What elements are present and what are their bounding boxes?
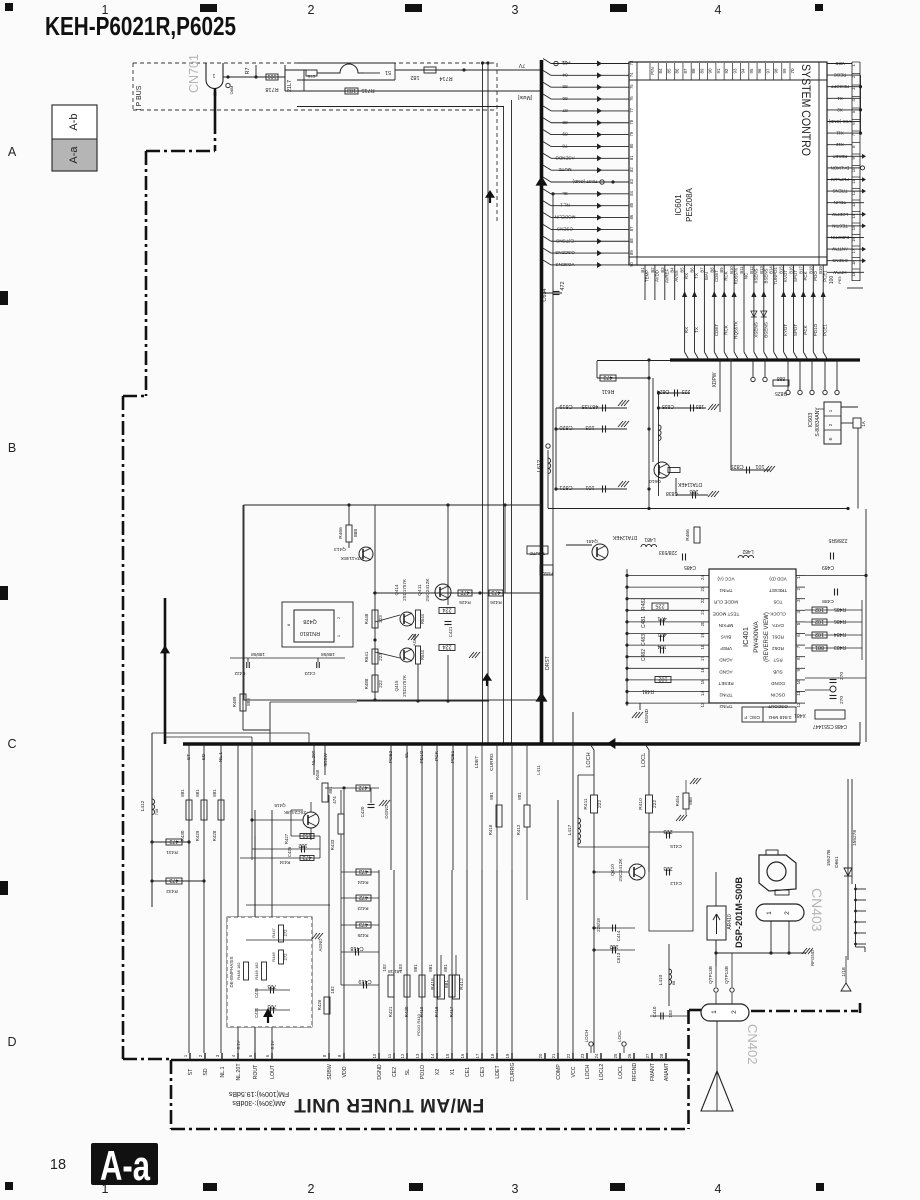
svg-text:LOCL: LOCL bbox=[641, 753, 647, 767]
svg-text:TPIN2: TPIN2 bbox=[719, 693, 732, 698]
svg-text:R416: R416 bbox=[488, 824, 493, 835]
svg-text:C819: C819 bbox=[559, 403, 572, 409]
svg-text:888: 888 bbox=[688, 797, 693, 805]
svg-text:RST: RST bbox=[773, 658, 782, 663]
svg-text:MUTE: MUTE bbox=[558, 167, 571, 172]
svg-text:101: 101 bbox=[755, 463, 764, 469]
svg-text:ROUT: ROUT bbox=[253, 1064, 259, 1080]
svg-text:Q418: Q418 bbox=[274, 803, 286, 808]
svg-text:104: 104 bbox=[657, 643, 666, 649]
svg-text:R416: R416 bbox=[430, 978, 436, 990]
svg-text:102: 102 bbox=[382, 964, 387, 972]
svg-text:25: 25 bbox=[613, 1053, 618, 1058]
svg-text:83: 83 bbox=[562, 61, 568, 66]
svg-text:XSENS: XSENS bbox=[753, 322, 758, 338]
svg-text:223: 223 bbox=[378, 615, 383, 623]
svg-text:C829: C829 bbox=[730, 463, 743, 469]
svg-text:881: 881 bbox=[443, 964, 448, 972]
svg-text:1A: 1A bbox=[861, 421, 866, 427]
svg-text:PD1O: PD1O bbox=[420, 1065, 426, 1079]
svg-text:103: 103 bbox=[668, 1010, 673, 1018]
svg-text:CSENS: CSENS bbox=[557, 226, 573, 231]
svg-text:OSC. F: OSC. F bbox=[744, 714, 760, 720]
svg-text:PD1O: PD1O bbox=[419, 750, 425, 763]
svg-text:222: 222 bbox=[652, 800, 658, 808]
svg-text:75: 75 bbox=[629, 84, 634, 89]
svg-text:ANAMT: ANAMT bbox=[664, 1062, 670, 1081]
svg-text:102: 102 bbox=[658, 676, 667, 682]
svg-text:TPIN1: TPIN1 bbox=[719, 588, 732, 593]
svg-text:X1: X1 bbox=[837, 96, 843, 101]
svg-text:LCDPW: LCDPW bbox=[831, 212, 848, 217]
svg-text:SL: SL bbox=[404, 752, 410, 758]
svg-text:RFGND: RFGND bbox=[810, 949, 815, 966]
svg-text:15527B: 15527B bbox=[826, 850, 832, 867]
svg-text:97: 97 bbox=[765, 68, 770, 74]
svg-text:DTA124EK: DTA124EK bbox=[612, 534, 637, 540]
svg-text:4: 4 bbox=[715, 3, 722, 17]
svg-text:L417: L417 bbox=[567, 824, 573, 835]
svg-text:S-80834ANY: S-80834ANY bbox=[815, 407, 821, 437]
svg-text:77: 77 bbox=[629, 107, 634, 112]
svg-text:B11: B11 bbox=[739, 266, 744, 274]
svg-text:10: 10 bbox=[372, 1053, 377, 1058]
svg-text:[Mute]: [Mute] bbox=[517, 94, 532, 100]
svg-text:DTA114EK: DTA114EK bbox=[677, 481, 702, 487]
svg-text:223: 223 bbox=[663, 828, 672, 834]
svg-text:27: 27 bbox=[645, 1053, 650, 1058]
svg-text:473: 473 bbox=[491, 589, 500, 595]
svg-text:C483: C483 bbox=[641, 634, 647, 646]
svg-text:NL.1: NL.1 bbox=[220, 1066, 226, 1077]
svg-text:474: 474 bbox=[332, 796, 337, 804]
svg-text:R431: R431 bbox=[166, 849, 178, 855]
svg-text:70: 70 bbox=[790, 68, 795, 74]
svg-text:C423: C423 bbox=[304, 671, 315, 676]
svg-text:473: 473 bbox=[302, 854, 311, 860]
svg-text:D: D bbox=[7, 1035, 16, 1049]
svg-text:272: 272 bbox=[283, 953, 288, 961]
svg-text:DE-EMPHASIS: DE-EMPHASIS bbox=[229, 956, 234, 987]
svg-text:C426: C426 bbox=[287, 846, 292, 857]
svg-text:RCK: RCK bbox=[724, 324, 729, 335]
svg-text:STB: STB bbox=[307, 74, 315, 79]
svg-text:IC401: IC401 bbox=[741, 627, 750, 647]
svg-text:VCC (A): VCC (A) bbox=[717, 577, 735, 582]
svg-text:83: 83 bbox=[629, 179, 634, 184]
svg-text:ASENBO: ASENBO bbox=[555, 155, 575, 160]
svg-text:TELIN: TELIN bbox=[834, 200, 846, 205]
svg-text:VDD: VDD bbox=[835, 61, 844, 66]
svg-text:101: 101 bbox=[585, 484, 594, 490]
svg-text:X11: X11 bbox=[836, 131, 844, 136]
svg-text:102: 102 bbox=[815, 606, 824, 612]
svg-text:7V: 7V bbox=[518, 62, 525, 68]
svg-text:182: 182 bbox=[609, 943, 618, 949]
svg-text:R641: R641 bbox=[364, 651, 369, 662]
svg-text:CLOCK: CLOCK bbox=[769, 611, 786, 616]
svg-text:2SC2412K: 2SC2412K bbox=[425, 578, 431, 602]
svg-text:222: 222 bbox=[378, 680, 383, 688]
svg-text:A: A bbox=[8, 145, 17, 159]
svg-text:89: 89 bbox=[629, 250, 634, 255]
svg-text:223: 223 bbox=[682, 388, 691, 394]
svg-text:LOCH: LOCH bbox=[584, 1030, 589, 1043]
svg-text:RD51: RD51 bbox=[772, 635, 784, 640]
svg-text:CE3: CE3 bbox=[480, 1067, 486, 1077]
svg-text:AGND: AGND bbox=[719, 669, 733, 674]
svg-text:94: 94 bbox=[741, 68, 746, 74]
svg-text:R489: R489 bbox=[232, 696, 237, 707]
svg-text:REGOFF: REGOFF bbox=[831, 84, 850, 89]
svg-text:OBM: OBM bbox=[230, 86, 234, 95]
svg-text:PO1O R410: PO1O R410 bbox=[416, 1013, 421, 1036]
svg-text:KEH-P6021R,P6025: KEH-P6021R,P6025 bbox=[45, 11, 236, 41]
svg-text:TO5: TO5 bbox=[773, 600, 782, 605]
svg-text:84: 84 bbox=[629, 190, 634, 195]
svg-text:472: 472 bbox=[560, 281, 566, 290]
svg-text:153: 153 bbox=[302, 832, 311, 838]
svg-text:R714: R714 bbox=[439, 75, 452, 81]
svg-text:R481: R481 bbox=[642, 688, 654, 694]
svg-text:718: 718 bbox=[154, 808, 159, 815]
svg-text:99: 99 bbox=[782, 68, 787, 74]
svg-text:472: 472 bbox=[358, 784, 367, 790]
svg-text:188/58: 188/58 bbox=[321, 652, 335, 657]
svg-text:DATA: DATA bbox=[771, 623, 784, 628]
svg-text:CN403: CN403 bbox=[809, 888, 825, 932]
svg-text:1: 1 bbox=[212, 72, 215, 78]
svg-text:SDBW: SDBW bbox=[327, 1064, 333, 1080]
svg-text:473: 473 bbox=[359, 921, 368, 927]
svg-text:L481: L481 bbox=[644, 536, 655, 542]
svg-text:R718: R718 bbox=[265, 86, 278, 92]
svg-text:VOSENS: VOSENS bbox=[555, 262, 574, 267]
svg-text:R7: R7 bbox=[245, 67, 251, 74]
svg-text:EJTSNS: EJTSNS bbox=[556, 238, 574, 243]
svg-text:18: 18 bbox=[50, 1157, 66, 1173]
svg-text:1: 1 bbox=[711, 1010, 718, 1014]
svg-text:272: 272 bbox=[283, 929, 288, 937]
svg-text:R483: R483 bbox=[834, 644, 846, 650]
svg-text:LOCL2: LOCL2 bbox=[599, 1064, 605, 1081]
svg-text:KYDT: KYDT bbox=[783, 324, 788, 336]
svg-text:SD: SD bbox=[203, 1068, 209, 1075]
svg-text:881: 881 bbox=[180, 789, 185, 797]
svg-text:R426: R426 bbox=[490, 599, 502, 605]
svg-text:DGND: DGND bbox=[377, 1064, 383, 1080]
svg-text:2: 2 bbox=[784, 911, 791, 915]
svg-text:87: 87 bbox=[562, 108, 568, 113]
svg-text:TRESET: TRESET bbox=[769, 588, 787, 593]
svg-text:C613: C613 bbox=[616, 952, 621, 963]
svg-text:BIAS: BIAS bbox=[721, 635, 731, 640]
svg-text:FLIPLLM: FLIPLLM bbox=[831, 177, 849, 182]
svg-text:R424: R424 bbox=[357, 880, 368, 885]
svg-text:PW400WA: PW400WA bbox=[753, 621, 760, 653]
svg-text:R482: R482 bbox=[641, 598, 647, 610]
svg-text:C481: C481 bbox=[641, 616, 647, 628]
svg-text:OSCENS: OSCENS bbox=[555, 250, 574, 255]
svg-text:B6: B6 bbox=[690, 267, 695, 273]
svg-text:LOCL: LOCL bbox=[618, 1065, 624, 1079]
svg-text:PE5208A: PE5208A bbox=[685, 187, 694, 221]
svg-text:R484: R484 bbox=[834, 631, 846, 637]
svg-text:MODELIN: MODELIN bbox=[555, 215, 576, 220]
svg-text:OSCIN: OSCIN bbox=[771, 693, 786, 698]
svg-text:R486: R486 bbox=[834, 618, 846, 624]
svg-text:87: 87 bbox=[683, 68, 688, 74]
svg-text:R825: R825 bbox=[775, 390, 787, 396]
svg-text:CDET: CDET bbox=[714, 324, 719, 337]
svg-text:225: 225 bbox=[655, 603, 664, 609]
svg-text:X2: X2 bbox=[435, 1069, 441, 1075]
svg-text:DTA114EK: DTA114EK bbox=[340, 555, 364, 561]
svg-text:2: 2 bbox=[308, 1182, 315, 1196]
svg-text:473: 473 bbox=[169, 877, 178, 883]
svg-text:472: 472 bbox=[460, 589, 469, 595]
svg-text:88: 88 bbox=[562, 120, 568, 125]
svg-text:8.1V: 8.1V bbox=[236, 1040, 241, 1049]
svg-text:93: 93 bbox=[732, 68, 737, 74]
svg-text:C414: C414 bbox=[616, 930, 621, 941]
svg-text:C488: C488 bbox=[822, 598, 834, 604]
svg-text:NL.1: NL.1 bbox=[218, 752, 224, 762]
svg-text:22: 22 bbox=[566, 1053, 571, 1058]
svg-text:R466: R466 bbox=[685, 529, 691, 541]
svg-text:R421: R421 bbox=[388, 1006, 393, 1017]
svg-text:R412: R412 bbox=[516, 824, 521, 835]
svg-text:88: 88 bbox=[629, 238, 634, 243]
svg-text:CE1: CE1 bbox=[465, 1067, 471, 1077]
svg-text:X2: X2 bbox=[837, 107, 843, 112]
svg-text:19: 19 bbox=[505, 1053, 510, 1058]
svg-text:228/593: 228/593 bbox=[659, 549, 677, 555]
svg-text:PIN: PIN bbox=[650, 67, 655, 75]
svg-text:101: 101 bbox=[267, 73, 276, 79]
svg-text:C422: C422 bbox=[234, 671, 245, 676]
svg-text:NL.1: NL.1 bbox=[560, 203, 570, 208]
svg-text:C412: C412 bbox=[670, 880, 682, 886]
svg-text:12: 12 bbox=[400, 1053, 405, 1058]
svg-text:Q411: Q411 bbox=[417, 584, 423, 596]
svg-text:NL.20T: NL.20T bbox=[236, 1063, 242, 1081]
svg-text:I P BUS: I P BUS bbox=[136, 85, 143, 110]
svg-text:FM/AM: FM/AM bbox=[540, 571, 553, 576]
svg-text:C425: C425 bbox=[254, 987, 259, 998]
svg-text:ST: ST bbox=[186, 754, 192, 760]
svg-text:R432: R432 bbox=[166, 888, 178, 894]
svg-text:QTP13B: QTP13B bbox=[708, 966, 713, 984]
svg-text:188/58: 188/58 bbox=[251, 652, 265, 657]
svg-text:MODE CLR: MODE CLR bbox=[713, 600, 738, 605]
svg-text:C418: C418 bbox=[350, 945, 363, 951]
svg-text:PCE1: PCE1 bbox=[823, 324, 828, 336]
svg-text:3: 3 bbox=[512, 1182, 519, 1196]
svg-text:VSS (GND): VSS (GND) bbox=[828, 119, 851, 124]
svg-text:473: 473 bbox=[359, 868, 368, 874]
svg-text:473: 473 bbox=[169, 838, 178, 844]
svg-text:90: 90 bbox=[708, 68, 713, 74]
svg-text:182: 182 bbox=[298, 842, 307, 848]
svg-text:LOCH: LOCH bbox=[586, 752, 592, 767]
svg-text:881: 881 bbox=[212, 789, 217, 797]
svg-text:881: 881 bbox=[195, 789, 200, 797]
svg-text:Q410: Q410 bbox=[610, 864, 616, 876]
svg-text:AGND: AGND bbox=[318, 938, 323, 952]
svg-text:R448: R448 bbox=[364, 613, 369, 624]
svg-text:23: 23 bbox=[580, 1053, 585, 1058]
svg-text:183: 183 bbox=[696, 403, 705, 409]
svg-text:AM(30%):-30dBs: AM(30%):-30dBs bbox=[232, 1099, 286, 1106]
svg-text:RD52: RD52 bbox=[772, 646, 784, 651]
svg-text:89: 89 bbox=[562, 132, 568, 137]
svg-text:AGND: AGND bbox=[412, 634, 417, 646]
svg-text:R611: R611 bbox=[602, 388, 615, 394]
svg-text:DGND: DGND bbox=[771, 681, 785, 686]
svg-text:85: 85 bbox=[629, 202, 634, 207]
svg-text:R449 182: R449 182 bbox=[254, 962, 259, 980]
svg-text:C415: C415 bbox=[670, 843, 682, 849]
svg-text:IC603: IC603 bbox=[808, 413, 814, 428]
svg-text:C489: C489 bbox=[822, 564, 834, 570]
svg-text:L482: L482 bbox=[742, 548, 753, 554]
svg-text:MPXIN: MPXIN bbox=[719, 623, 734, 628]
svg-text:CN701: CN701 bbox=[187, 54, 201, 93]
svg-text:DALMON: DALMON bbox=[831, 165, 850, 170]
svg-text:R433: R433 bbox=[330, 839, 335, 850]
svg-text:HFPW: HFPW bbox=[833, 270, 847, 275]
svg-text:Q413: Q413 bbox=[334, 546, 346, 552]
svg-text:21L7: 21L7 bbox=[287, 80, 293, 92]
svg-text:R417: R417 bbox=[449, 1006, 454, 1017]
svg-text:Q481: Q481 bbox=[586, 538, 598, 544]
svg-text:91: 91 bbox=[716, 68, 721, 74]
svg-text:2SD1757K: 2SD1757K bbox=[402, 579, 407, 601]
svg-text:SYSTEM CONTRO: SYSTEM CONTRO bbox=[799, 64, 811, 156]
svg-text:A-a: A-a bbox=[100, 1142, 150, 1189]
svg-text:XDPW: XDPW bbox=[712, 372, 718, 387]
svg-text:89: 89 bbox=[699, 68, 704, 74]
svg-text:80: 80 bbox=[629, 143, 634, 148]
svg-text:PCK: PCK bbox=[434, 750, 440, 761]
svg-text:R425: R425 bbox=[459, 599, 471, 605]
svg-text:R418: R418 bbox=[434, 1006, 439, 1017]
svg-text:R446: R446 bbox=[271, 951, 276, 961]
svg-text:473: 473 bbox=[603, 374, 612, 380]
svg-text:REGC: REGC bbox=[834, 73, 847, 78]
svg-text:RESET: RESET bbox=[718, 681, 734, 686]
svg-text:C485: C485 bbox=[684, 564, 696, 570]
svg-text:CURRG: CURRG bbox=[489, 753, 495, 771]
svg-text:TMUTE: TMUTE bbox=[530, 551, 546, 556]
svg-text:85: 85 bbox=[562, 84, 568, 89]
svg-text:CURRG: CURRG bbox=[510, 1062, 516, 1081]
svg-text:L410: L410 bbox=[658, 974, 664, 985]
svg-text:SL: SL bbox=[562, 191, 568, 196]
svg-text:B: B bbox=[8, 441, 16, 455]
svg-text:C482: C482 bbox=[641, 649, 647, 661]
svg-text:224: 224 bbox=[442, 607, 451, 613]
svg-text:88: 88 bbox=[671, 980, 676, 985]
svg-text:R428: R428 bbox=[212, 830, 217, 841]
svg-text:C: C bbox=[7, 737, 16, 751]
svg-text:FMANT: FMANT bbox=[650, 1062, 656, 1081]
svg-text:C420: C420 bbox=[360, 806, 365, 817]
svg-text:D661: D661 bbox=[834, 856, 840, 868]
svg-text:E: E bbox=[828, 437, 833, 440]
svg-text:86: 86 bbox=[675, 68, 680, 74]
svg-text:COMP: COMP bbox=[556, 1064, 562, 1080]
svg-text:472: 472 bbox=[359, 894, 368, 900]
svg-text:20: 20 bbox=[538, 1053, 543, 1058]
svg-text:ST: ST bbox=[188, 1068, 194, 1075]
svg-text:L411: L411 bbox=[536, 765, 541, 775]
svg-text:11: 11 bbox=[387, 1053, 392, 1058]
svg-text:102: 102 bbox=[815, 631, 824, 637]
svg-text:223: 223 bbox=[663, 865, 672, 871]
svg-text:228/6R5: 228/6R5 bbox=[828, 537, 847, 543]
svg-text:881: 881 bbox=[328, 786, 333, 794]
svg-text:Q415: Q415 bbox=[394, 680, 399, 692]
svg-text:DGND: DGND bbox=[644, 708, 650, 723]
svg-text:881: 881 bbox=[444, 980, 450, 988]
svg-text:R644: R644 bbox=[420, 649, 425, 660]
svg-text:90: 90 bbox=[629, 261, 634, 266]
svg-text:84: 84 bbox=[562, 72, 568, 77]
svg-text:R488: R488 bbox=[364, 678, 369, 689]
svg-text:SD: SD bbox=[201, 753, 207, 760]
svg-text:92: 92 bbox=[724, 68, 729, 74]
svg-text:R448 182: R448 182 bbox=[236, 962, 241, 980]
svg-text:C820: C820 bbox=[559, 424, 572, 430]
svg-text:Q428: Q428 bbox=[303, 618, 316, 624]
svg-text:Q610: Q610 bbox=[649, 478, 661, 484]
svg-text:51: 51 bbox=[385, 69, 391, 75]
svg-text:98: 98 bbox=[774, 68, 779, 74]
svg-text:DSP-201M-S00B: DSP-201M-S00B bbox=[734, 877, 745, 948]
svg-text:28: 28 bbox=[659, 1053, 664, 1058]
svg-text:86: 86 bbox=[629, 214, 634, 219]
svg-text:222: 222 bbox=[597, 800, 603, 808]
svg-text:224: 224 bbox=[442, 644, 451, 650]
svg-text:471: 471 bbox=[657, 615, 666, 621]
svg-text:88: 88 bbox=[691, 68, 696, 74]
svg-text:VDD: VDD bbox=[342, 1066, 348, 1077]
svg-text:182: 182 bbox=[410, 74, 419, 80]
svg-text:C835: C835 bbox=[662, 403, 674, 409]
svg-text:888: 888 bbox=[246, 698, 251, 706]
svg-text:PCE1: PCE1 bbox=[450, 750, 456, 763]
svg-text:74: 74 bbox=[629, 72, 634, 77]
svg-text:103: 103 bbox=[585, 424, 594, 430]
svg-text:R430: R430 bbox=[180, 830, 185, 841]
svg-text:73: 73 bbox=[629, 60, 634, 65]
svg-text:102: 102 bbox=[815, 618, 824, 624]
svg-text:21: 21 bbox=[551, 1053, 556, 1058]
svg-text:4: 4 bbox=[715, 1182, 722, 1196]
svg-text:LDET: LDET bbox=[495, 1065, 501, 1079]
svg-text:723: 723 bbox=[267, 983, 276, 989]
svg-text:R644: R644 bbox=[420, 613, 425, 624]
svg-text:17: 17 bbox=[475, 1053, 480, 1058]
svg-text:R434: R434 bbox=[279, 860, 290, 865]
svg-text:R410: R410 bbox=[638, 798, 644, 810]
svg-text:C410: C410 bbox=[652, 1006, 657, 1017]
svg-text:76: 76 bbox=[629, 96, 634, 101]
svg-text:IC601: IC601 bbox=[674, 194, 683, 216]
svg-text:FM(100%):19.5dBs: FM(100%):19.5dBs bbox=[228, 1090, 289, 1097]
